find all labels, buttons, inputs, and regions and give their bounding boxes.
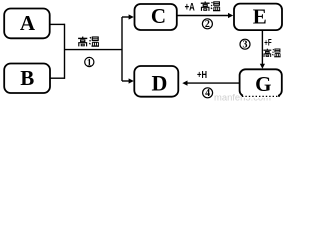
label 高温 right <box>263 49 271 57</box>
box B <box>4 64 50 94</box>
box A <box>4 9 50 39</box>
box G <box>240 69 282 96</box>
box D <box>134 66 178 97</box>
svg-text:+H: +H <box>197 70 207 81</box>
svg-text:2: 2 <box>205 19 210 30</box>
arrow C to E ② <box>177 15 229 17</box>
svg-text:B: B <box>20 66 34 90</box>
svg-text:1: 1 <box>87 58 92 68</box>
svg-text:3: 3 <box>243 40 248 51</box>
svg-text:4: 4 <box>205 88 210 99</box>
arrow G to D ④ <box>187 82 240 84</box>
arrow into D <box>122 80 129 82</box>
box E <box>234 4 282 31</box>
svg-text:E: E <box>253 5 267 29</box>
svg-text:D: D <box>152 70 168 95</box>
svg-text:C: C <box>151 4 166 28</box>
box C <box>135 4 177 30</box>
svg-text:G: G <box>255 72 271 96</box>
wire A to left junction <box>49 23 65 25</box>
wire right junction vertical <box>121 17 123 81</box>
wire left junction vertical <box>64 24 66 79</box>
svg-text:+F: +F <box>264 37 272 47</box>
label ② <box>202 19 212 29</box>
label ③ <box>240 39 250 49</box>
label ④ <box>203 88 213 98</box>
wire B to left junction <box>49 77 65 79</box>
wire main horizontal ① <box>65 49 123 51</box>
label ① <box>85 57 94 66</box>
svg-text:A: A <box>20 11 36 35</box>
arrow E to G ③ <box>261 30 263 64</box>
svg-text:+A: +A <box>185 1 195 13</box>
label 高温 main <box>78 37 87 47</box>
arrow into C <box>122 16 129 18</box>
